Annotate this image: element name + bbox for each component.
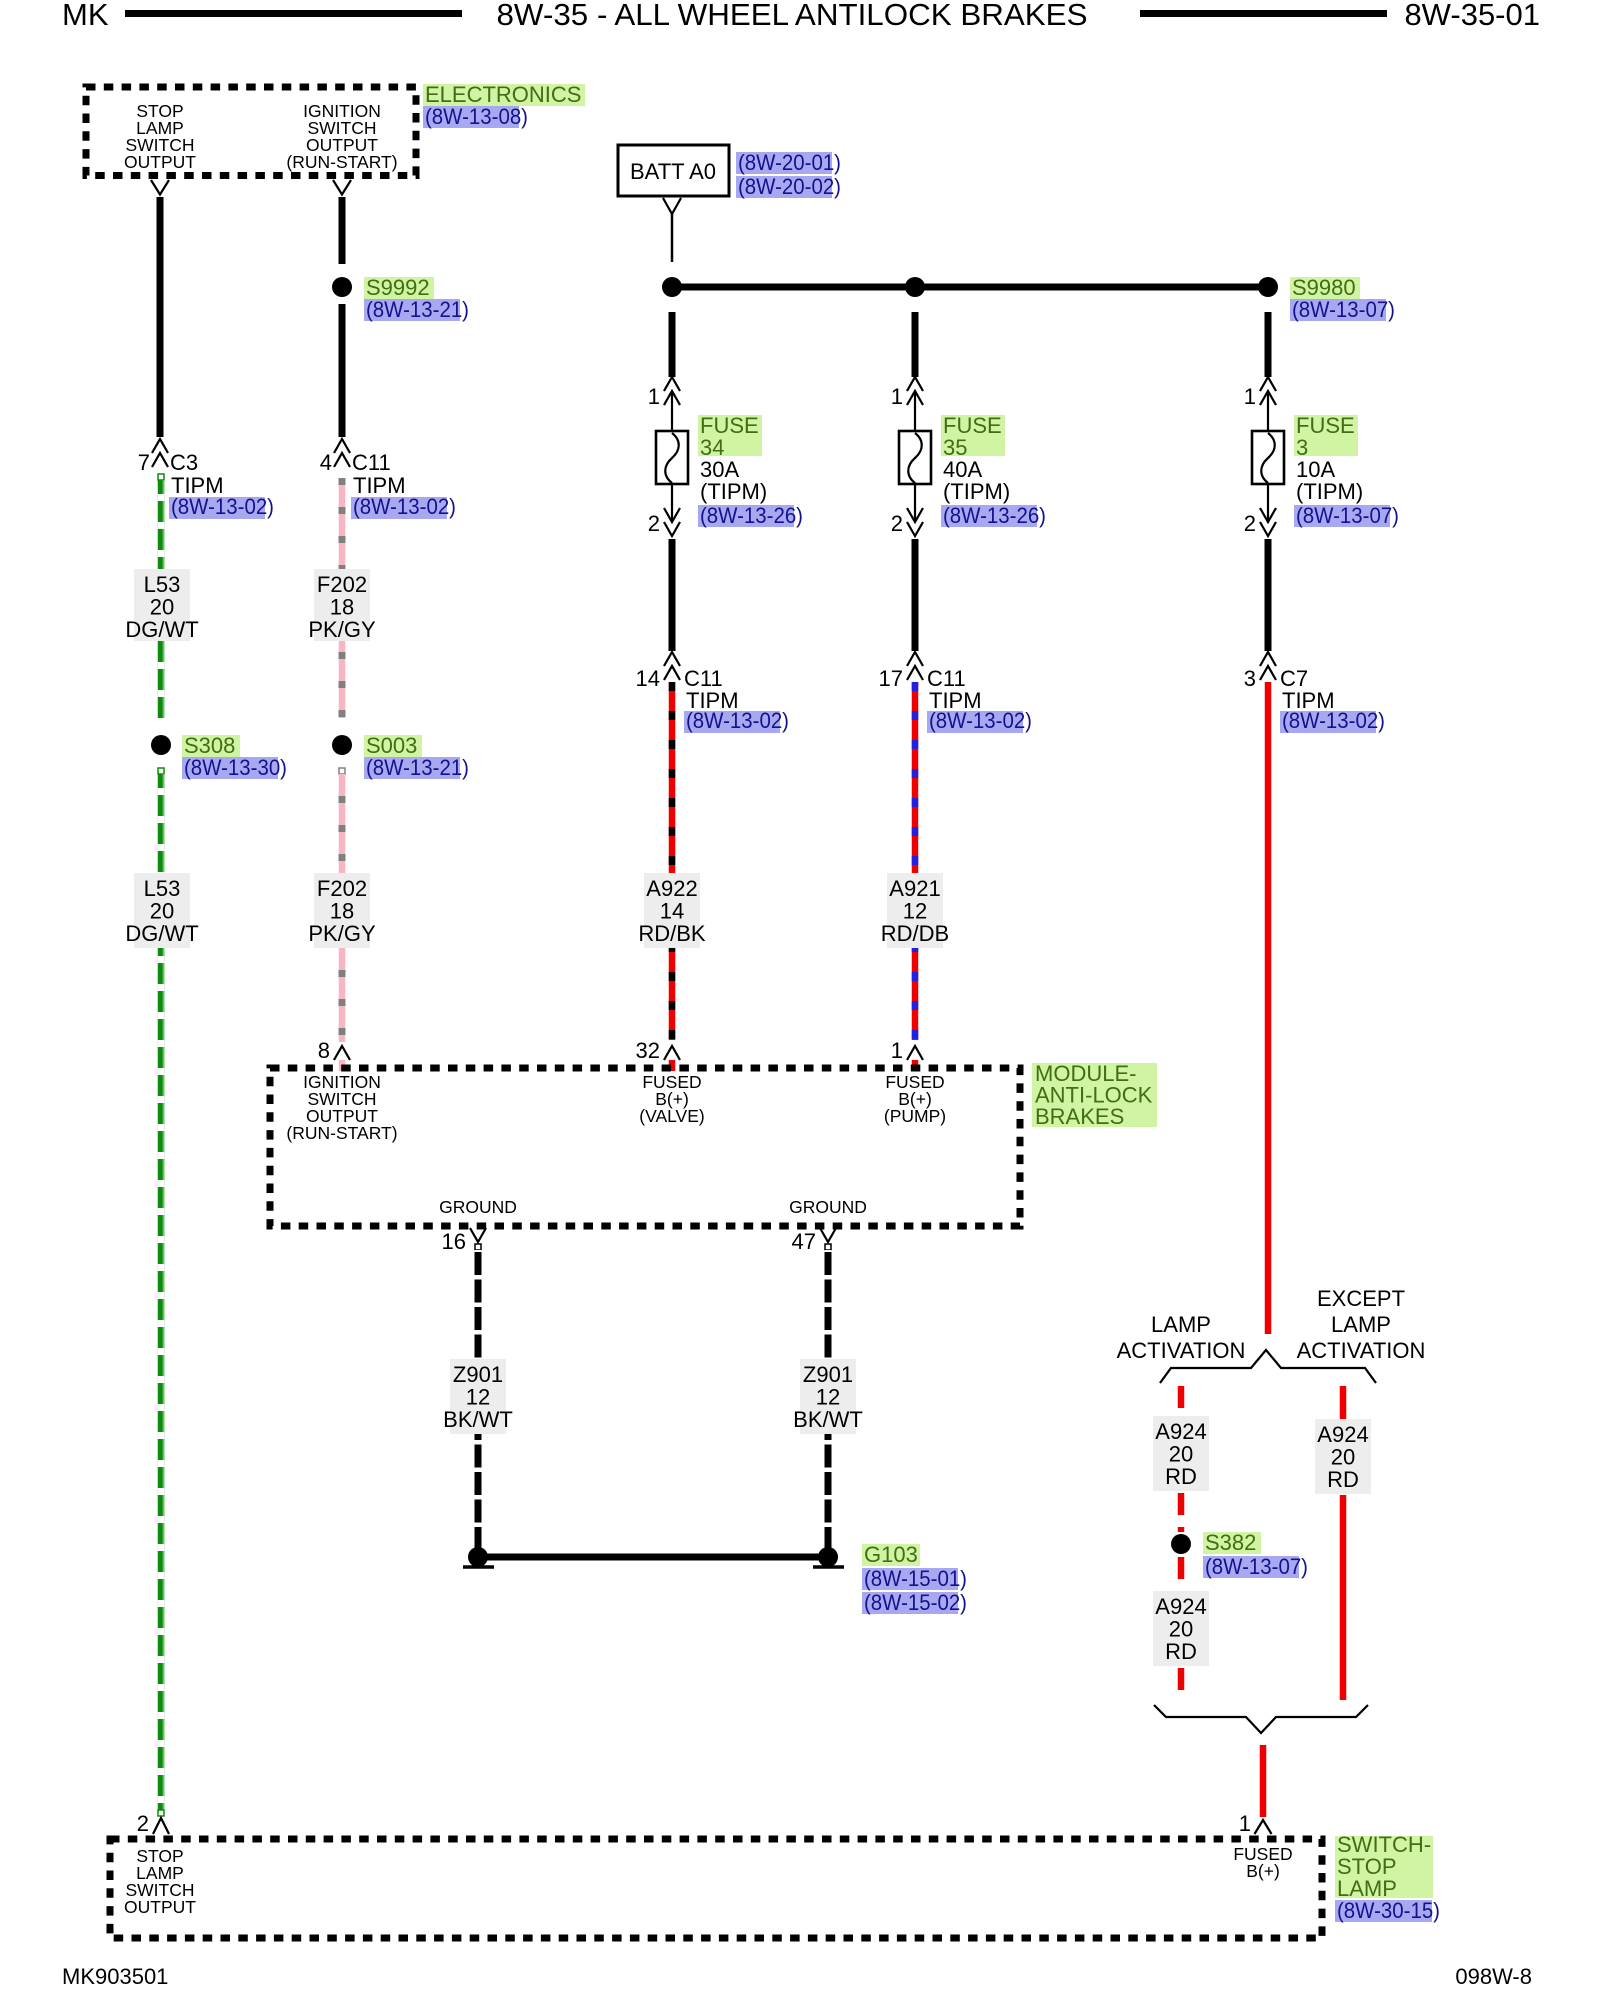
svg-text:(8W-13-26): (8W-13-26) (943, 503, 1046, 528)
svg-text:BATT A0: BATT A0 (630, 159, 716, 184)
wire label A921 12 RD/DB (881, 873, 949, 948)
svg-text:C11: C11 (352, 450, 391, 475)
pin FUSED B(+) (PUMP) (module) (884, 1072, 946, 1126)
module box MODULE-ANTI-LOCK BRAKES (270, 1068, 1020, 1226)
svg-text:Z901: Z901 (453, 1362, 503, 1387)
pin chevron below box col A (151, 180, 169, 195)
svg-text:RD/DB: RD/DB (881, 921, 949, 946)
svg-text:14: 14 (660, 899, 684, 924)
svg-text:A924: A924 (1155, 1419, 1206, 1444)
connector pin 2 into switch-stop lamp box (137, 1810, 169, 1836)
ground bus G103 (478, 1554, 828, 1561)
svg-text:(8W-13-02): (8W-13-02) (171, 494, 274, 519)
svg-text:16: 16 (442, 1229, 466, 1254)
connector C7 pin 3 (1244, 652, 1385, 733)
wire BATT to bus (thin) (671, 214, 674, 262)
wire fuse35 bottom thick (912, 539, 919, 651)
svg-text:17: 17 (879, 666, 903, 691)
svg-text:20: 20 (150, 899, 174, 924)
svg-text:A922: A922 (646, 876, 697, 901)
svg-text:4: 4 (320, 450, 332, 475)
connector pin 8 into module (318, 1038, 350, 1071)
wire Z901 right (BK/WT) (825, 1250, 832, 1552)
svg-text:18: 18 (330, 595, 354, 620)
fuse F35 (899, 391, 931, 520)
wire label Z901 12 BK/WT (left) (443, 1359, 513, 1434)
svg-text:OUTPUT: OUTPUT (124, 1897, 196, 1917)
svg-text:DG/WT: DG/WT (125, 921, 198, 946)
wire A924 left branch lower (RD dashed) (1178, 1557, 1185, 1589)
svg-text:G103: G103 (864, 1542, 918, 1567)
connector fuse34 pin 2 (648, 508, 680, 536)
svg-text:7: 7 (138, 450, 150, 475)
connector fuse35 pin 2 (891, 508, 923, 536)
svg-text:BK/WT: BK/WT (793, 1407, 863, 1432)
svg-text:(TIPM): (TIPM) (1296, 479, 1363, 504)
switch-stop lamp box (110, 1839, 1322, 1938)
svg-text:L53: L53 (144, 876, 181, 901)
battery BATT A0 (618, 145, 841, 199)
svg-text:A924: A924 (1317, 1422, 1368, 1447)
svg-text:F202: F202 (317, 876, 367, 901)
svg-text:14: 14 (636, 666, 660, 691)
label SWITCH-STOP LAMP (1335, 1832, 1440, 1923)
svg-text:(8W-15-01): (8W-15-01) (864, 1566, 967, 1591)
svg-text:(8W-30-15): (8W-30-15) (1337, 1898, 1440, 1923)
brace split top (1160, 1350, 1376, 1383)
wire L53 lower segment (DG/WT) (158, 768, 164, 1810)
wire label A924 20 RD (left lower) (1153, 1591, 1209, 1666)
wire col A thick black (157, 197, 164, 437)
wire label L53 20 DG/WT (lower) (125, 873, 198, 948)
svg-text:RD: RD (1165, 1639, 1197, 1664)
svg-text:GROUND: GROUND (789, 1197, 867, 1217)
label LAMP ACTIVATION (1117, 1312, 1246, 1363)
svg-text:8W-35 - ALL WHEEL ANTILOCK BRA: 8W-35 - ALL WHEEL ANTILOCK BRAKES (497, 0, 1088, 32)
svg-text:(8W-20-01): (8W-20-01) (738, 150, 841, 175)
connector C11 pin 14 (636, 652, 789, 733)
wire A924 right branch upper (RD) (1340, 1386, 1347, 1420)
svg-text:20: 20 (1169, 1617, 1193, 1642)
svg-text:(RUN-START): (RUN-START) (286, 152, 397, 172)
wire label A924 20 RD (left upper) (1153, 1416, 1209, 1491)
connector C11 pin 4 (320, 439, 456, 519)
connector fuse3 pin 2 (1244, 508, 1276, 536)
fuse 3 labels (1294, 413, 1399, 528)
svg-text:S382: S382 (1205, 1530, 1256, 1555)
svg-text:F202: F202 (317, 572, 367, 597)
wire A924 left branch upper (RD dashed) (1178, 1386, 1185, 1415)
svg-text:8W-35-01: 8W-35-01 (1404, 0, 1540, 32)
wire A924 left branch bottom (RD dashed) (1178, 1668, 1185, 1700)
splice S382 (1171, 1530, 1308, 1579)
svg-text:ACTIVATION: ACTIVATION (1117, 1338, 1246, 1363)
svg-text:47: 47 (792, 1229, 816, 1254)
svg-text:1: 1 (1239, 1811, 1251, 1836)
connector C3 pin 7 (138, 439, 274, 519)
svg-text:(8W-13-07): (8W-13-07) (1292, 297, 1395, 322)
svg-text:BK/WT: BK/WT (443, 1407, 513, 1432)
connector fuse35 pin 1 (891, 377, 923, 409)
fuse 34 labels (698, 413, 803, 528)
svg-text:(TIPM): (TIPM) (943, 479, 1010, 504)
wire A924 left branch mid (RD dashed) (1178, 1493, 1185, 1532)
svg-text:DG/WT: DG/WT (125, 617, 198, 642)
svg-text:LAMP: LAMP (1151, 1312, 1211, 1337)
pin IGNITION SWITCH OUTPUT (RUN-START) (ELECTRONICS) (286, 101, 397, 172)
connector fuse3 pin 1 (1244, 377, 1276, 409)
wire Z901 left (BK/WT) (475, 1250, 482, 1552)
wire label F202 18 PK/GY (upper) (308, 569, 376, 642)
wire fuse3 output RD solid (1265, 682, 1272, 1334)
ground symbol right (813, 1547, 844, 1567)
wire label Z901 12 BK/WT (right) (793, 1359, 863, 1434)
label MODULE-ANTI-LOCK BRAKES (1032, 1061, 1157, 1129)
ground symbol left (463, 1547, 494, 1567)
svg-text:L53: L53 (144, 572, 181, 597)
wire A924 right branch lower (RD) (1340, 1495, 1347, 1700)
pin STOP LAMP SWITCH OUTPUT (ELECTRONICS) (124, 101, 196, 172)
svg-text:(PUMP): (PUMP) (884, 1106, 946, 1126)
footer (62, 1964, 1532, 1989)
wire fuse34 top thick (669, 312, 676, 377)
fuse F3 (1252, 391, 1284, 520)
svg-text:OUTPUT: OUTPUT (124, 152, 196, 172)
wire to stop lamp switch (RD) (1260, 1745, 1267, 1817)
connector fuse34 pin 1 (648, 377, 680, 409)
svg-text:(8W-15-02): (8W-15-02) (864, 1590, 967, 1615)
svg-text:(8W-13-26): (8W-13-26) (700, 503, 803, 528)
svg-text:(8W-13-08): (8W-13-08) (425, 104, 528, 129)
svg-text:1: 1 (648, 384, 660, 409)
svg-text:EXCEPT: EXCEPT (1317, 1286, 1405, 1311)
junction dot at fuse 35 column (905, 277, 925, 297)
wire A921 12 RD/DB (912, 682, 919, 1040)
splice S9992 (332, 275, 469, 322)
splice S9980 (1258, 275, 1395, 322)
svg-text:(TIPM): (TIPM) (700, 479, 767, 504)
svg-text:20: 20 (1331, 1445, 1355, 1470)
wire A922 14 RD/BK (669, 682, 676, 1040)
svg-text:2: 2 (648, 511, 660, 536)
svg-text:Z901: Z901 (803, 1362, 853, 1387)
svg-text:MK903501: MK903501 (62, 1964, 168, 1989)
pin GROUND left (module) (439, 1197, 517, 1217)
svg-text:098W-8: 098W-8 (1455, 1964, 1532, 1989)
splice S003 (332, 733, 469, 780)
wire fuse3 top thick (1265, 312, 1272, 377)
junction dot at BATT bus (662, 277, 682, 297)
svg-text:C3: C3 (170, 450, 198, 475)
brace merge bottom (1154, 1705, 1368, 1733)
svg-text:(RUN-START): (RUN-START) (286, 1123, 397, 1143)
svg-text:MK: MK (62, 0, 109, 32)
fuse F34 (656, 391, 688, 520)
wire fuse3 bottom thick (1265, 539, 1272, 651)
svg-text:LAMP: LAMP (1331, 1312, 1391, 1337)
wire L53 upper segment (DG/WT) (158, 474, 164, 718)
svg-text:1: 1 (891, 1038, 903, 1063)
svg-text:(8W-13-02): (8W-13-02) (686, 708, 789, 733)
svg-text:(8W-13-21): (8W-13-21) (366, 755, 469, 780)
svg-text:2: 2 (1244, 511, 1256, 536)
svg-text:32: 32 (636, 1038, 660, 1063)
svg-text:(8W-13-21): (8W-13-21) (366, 297, 469, 322)
svg-text:GROUND: GROUND (439, 1197, 517, 1217)
wire label L53 20 DG/WT (upper) (125, 569, 198, 642)
pin FUSED B(+) (VALVE) (module) (639, 1072, 704, 1126)
svg-text:(8W-13-02): (8W-13-02) (353, 494, 456, 519)
connector pin 32 into module (636, 1038, 680, 1071)
svg-text:RD: RD (1165, 1464, 1197, 1489)
connector pin 16 below module (442, 1228, 486, 1254)
pin chevron below box col B (333, 180, 351, 195)
svg-text:12: 12 (816, 1385, 840, 1410)
svg-text:(8W-13-02): (8W-13-02) (1282, 708, 1385, 733)
svg-text:BRAKES: BRAKES (1035, 1104, 1124, 1129)
label ELECTRONICS (423, 82, 585, 129)
svg-text:ACTIVATION: ACTIVATION (1297, 1338, 1426, 1363)
svg-text:20: 20 (150, 595, 174, 620)
bus wire A0 (672, 284, 1268, 291)
svg-text:1: 1 (891, 384, 903, 409)
pin GROUND right (module) (789, 1197, 867, 1217)
svg-text:3: 3 (1244, 666, 1256, 691)
svg-text:PK/GY: PK/GY (308, 617, 376, 642)
svg-text:12: 12 (903, 899, 927, 924)
header (62, 0, 1540, 32)
svg-text:RD/BK: RD/BK (638, 921, 706, 946)
svg-text:12: 12 (466, 1385, 490, 1410)
svg-text:(8W-13-07): (8W-13-07) (1296, 503, 1399, 528)
svg-text:(8W-13-07): (8W-13-07) (1205, 1554, 1308, 1579)
svg-text:(8W-20-02): (8W-20-02) (738, 174, 841, 199)
wire F202 lower segment (PK/GY) (339, 768, 345, 1042)
pin chevron below BATT A0 (663, 198, 681, 214)
connector pin 1 into switch-stop lamp box (1239, 1811, 1272, 1836)
svg-text:(VALVE): (VALVE) (639, 1106, 704, 1126)
splice S308 (151, 733, 287, 780)
wire fuse35 top thick (912, 312, 919, 377)
svg-text:(8W-13-02): (8W-13-02) (929, 708, 1032, 733)
svg-text:(8W-13-30): (8W-13-30) (184, 755, 287, 780)
svg-text:PK/GY: PK/GY (308, 921, 376, 946)
connector box ELECTRONICS (86, 87, 416, 176)
connector pin 1 into module (891, 1038, 923, 1071)
svg-text:20: 20 (1169, 1442, 1193, 1467)
svg-text:RD: RD (1327, 1467, 1359, 1492)
svg-text:A921: A921 (889, 876, 940, 901)
ground G103 labels (862, 1542, 967, 1615)
fuse 35 labels (941, 413, 1046, 528)
svg-text:A924: A924 (1155, 1594, 1206, 1619)
svg-text:2: 2 (137, 1811, 149, 1836)
wire label A922 14 RD/BK (638, 873, 706, 948)
wire F202 upper segment (PK/GY) (339, 478, 346, 718)
pin IGNITION SWITCH OUTPUT (RUN-START) (module) (286, 1072, 397, 1143)
wire col B thick black lower (339, 304, 346, 437)
wire label A924 20 RD (right) (1315, 1419, 1371, 1494)
svg-text:2: 2 (891, 511, 903, 536)
connector pin 47 below module (792, 1228, 836, 1254)
svg-text:18: 18 (330, 899, 354, 924)
wire label F202 18 PK/GY (lower) (308, 873, 376, 948)
label EXCEPT LAMP ACTIVATION (1297, 1286, 1426, 1363)
connector C11 pin 17 (879, 652, 1032, 733)
svg-text:B(+): B(+) (1246, 1861, 1280, 1881)
svg-text:8: 8 (318, 1038, 330, 1063)
pin STOP LAMP SWITCH OUTPUT (switch box) (124, 1846, 196, 1917)
wire col B thick black upper (339, 197, 346, 264)
pin FUSED B(+) (switch box) (1233, 1844, 1292, 1881)
svg-text:1: 1 (1244, 384, 1256, 409)
wire fuse34 bottom thick (669, 539, 676, 651)
